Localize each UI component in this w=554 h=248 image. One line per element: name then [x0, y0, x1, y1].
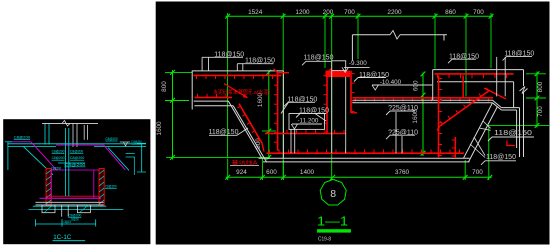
svg-text:800: 800 — [161, 81, 168, 92]
svg-text:水泥砂浆未凝固无.a(水泥): 水泥砂浆未凝固无.a(水泥) — [213, 88, 270, 96]
svg-text:118@150: 118@150 — [486, 154, 516, 161]
svg-text:C8@200: C8@200 — [64, 163, 85, 167]
svg-text:1524: 1524 — [248, 9, 263, 16]
svg-text:C8@200: C8@200 — [52, 156, 65, 160]
svg-text:C8@200: C8@200 — [105, 184, 117, 188]
svg-text:1400: 1400 — [300, 169, 315, 176]
svg-text:924: 924 — [236, 169, 247, 176]
svg-text:C8@200: C8@200 — [70, 156, 84, 160]
svg-text:118@150: 118@150 — [209, 129, 239, 136]
svg-text:1C-1C: 1C-1C — [53, 234, 72, 241]
svg-text:C19-8: C19-8 — [318, 237, 331, 243]
svg-text:700: 700 — [472, 169, 483, 176]
svg-text:-11.200: -11.200 — [297, 118, 318, 125]
svg-text:C8@200: C8@200 — [105, 137, 117, 141]
svg-text:700: 700 — [473, 9, 484, 16]
svg-text:118@150: 118@150 — [494, 130, 532, 137]
svg-text:C8@200: C8@200 — [64, 220, 71, 224]
svg-text:C8@200: C8@200 — [71, 218, 79, 222]
svg-text:C8@200: C8@200 — [52, 149, 65, 153]
svg-text:1200: 1200 — [295, 9, 310, 16]
svg-text:C8@200: C8@200 — [70, 149, 83, 153]
svg-text:800: 800 — [537, 81, 544, 92]
svg-text:600: 600 — [412, 80, 419, 91]
svg-text:-9.300: -9.300 — [349, 60, 367, 67]
svg-text:600: 600 — [266, 169, 277, 176]
svg-text:2200: 2200 — [387, 9, 402, 16]
svg-text:C8@200: C8@200 — [51, 167, 61, 171]
svg-text:8: 8 — [330, 188, 336, 200]
svg-text:1—1: 1—1 — [317, 214, 348, 229]
svg-text:118@150: 118@150 — [304, 55, 334, 62]
svg-text:3760: 3760 — [395, 169, 410, 176]
svg-text:700: 700 — [344, 9, 355, 16]
svg-text:1600: 1600 — [156, 121, 163, 136]
svg-text:700: 700 — [537, 106, 544, 117]
svg-text:860: 860 — [445, 9, 456, 16]
svg-text:C8@200: C8@200 — [14, 136, 30, 140]
